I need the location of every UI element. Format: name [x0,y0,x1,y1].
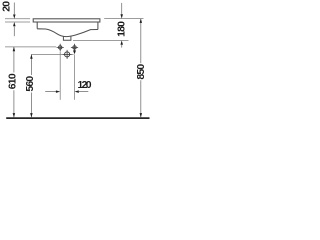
right fixing axis line [74,55,76,100]
dim 610 top arrow (up) [13,47,16,51]
dim 850 line [140,19,142,118]
dim 610 line [13,47,15,117]
fixing hole symbol right (circle with crosshair) [71,44,78,51]
washbasin bowl underside curve [37,29,98,37]
svg-text:610: 610 [8,73,19,89]
dim 180 lower stub [121,45,123,48]
floor line [6,117,149,119]
dim 120 left arrow (right) [56,90,60,93]
dim 120 right arrow (left) [75,90,79,93]
washbasin body right edge [97,22,99,30]
fixing hole symbol left (circle with crosshair) [57,44,64,51]
left fixing axis line [59,51,61,100]
dim 560 reference line (drain height) [31,53,73,55]
svg-text:180: 180 [116,21,127,37]
dim 850 top arrow (up) [140,19,143,23]
svg-text:20: 20 [1,1,12,12]
dim 560 top arrow (up) [30,54,33,58]
svg-text:850: 850 [136,64,147,80]
basin bottom extension line (180 dim bottom) [73,39,129,41]
dim 180 upper stub [121,3,123,14]
drain symbol (large circle with crosshair) [63,50,72,59]
dim 20 line lower stub [13,26,15,36]
dim 610 reference line (fixing holes height) [5,46,56,48]
dim 120 line left tail with right arrow [45,91,56,93]
rim top extension line to right (shared by 180 and 850 dims) [104,18,143,20]
dim 610 bottom arrow (down) [13,113,16,117]
dim 20 line upper stub [13,3,15,15]
dim 560 line [30,54,32,117]
dim 850 bottom arrow (down) [140,113,143,117]
dim 20 extension lines (rim thickness) [5,19,30,22]
svg-text:120: 120 [78,80,92,91]
drain outlet stub [63,36,71,40]
dim 560 bottom arrow (down) [30,113,33,117]
dim 120 line right tail [79,91,89,93]
washbasin body left edge [36,22,38,29]
axis down-arrow on right fixing line [73,50,76,54]
washbasin rim (side section, top console) [33,19,100,22]
dim 20 upper arrow (down) [13,15,16,19]
dim 180 lower arrow (up) [120,40,123,44]
svg-text:560: 560 [25,76,36,92]
dim 20 lower arrow (up) [13,22,16,26]
dim 180 upper arrow (down) [120,14,123,18]
